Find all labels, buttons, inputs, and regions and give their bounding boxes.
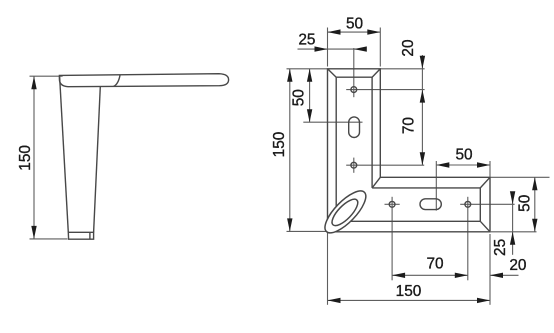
bracket outer outline	[328, 69, 491, 232]
slot S1 vertical oblong	[349, 117, 360, 138]
svg-text:20: 20	[509, 257, 526, 274]
dim 150 bottom: dimension line	[328, 299, 491, 301]
bracket bevel: top-left corner diagonal	[328, 69, 337, 77]
hole H2 vertical centerline	[353, 158, 355, 173]
svg-text:50: 50	[290, 89, 307, 106]
hole H1 horizontal centerline	[346, 89, 424, 91]
svg-text:150: 150	[271, 132, 288, 158]
hole H1 vertical centerline	[353, 48, 355, 97]
hole H4 horizontal centerline extended right	[460, 203, 514, 205]
dim 70 right: bottom arrow	[420, 152, 425, 165]
svg-text:70: 70	[426, 256, 443, 273]
dim 150 bracket-left: top arrow	[287, 69, 292, 82]
dim 150 left: top arrow	[31, 76, 36, 89]
svg-text:50: 50	[455, 147, 472, 164]
dim 25 top: right-pointing outside arrow	[315, 46, 328, 51]
dim 50 arm-top: dimension line	[436, 164, 490, 166]
hole H4 circle	[465, 201, 471, 207]
dim 50 bracket-left: bottom arrow	[307, 109, 312, 122]
dim 50 right: top arrow	[532, 177, 537, 190]
bracket bevel: vertical arm inner top	[336, 76, 372, 78]
dim 25 right: dimension line	[512, 192, 514, 255]
dim 150 left: bottom extension line	[30, 238, 68, 240]
dim 50 top: right arrow	[367, 29, 380, 34]
svg-text:150: 150	[17, 145, 34, 171]
leg left edge	[60, 77, 69, 233]
dim 50 arm-top: slot extension line	[435, 161, 437, 211]
svg-text:150: 150	[396, 283, 422, 300]
leg plate interior curve	[114, 75, 121, 86]
corner leg tube outer oval	[319, 185, 372, 239]
svg-text:70: 70	[400, 117, 417, 134]
hole H3 vertical centerline extended down	[391, 197, 393, 280]
svg-text:25: 25	[492, 239, 509, 256]
dim 20/70 vertical dimension line	[421, 55, 423, 165]
dim 150 bottom: left arrow	[328, 298, 341, 303]
bracket bevel: bottom arm inner right	[479, 188, 481, 221]
bracket bevel: right-bottom corner diagonal	[480, 221, 490, 232]
dim 20 top-right / dim 70 shared arrow	[420, 90, 425, 103]
svg-text:50: 50	[517, 195, 534, 212]
dim 70 bottom: dimension line	[392, 274, 468, 276]
bracket bevel: vertical arm inner left	[335, 77, 337, 221]
dim 50 arm-top: left arrow	[436, 162, 449, 167]
dim 70 bottom: left arrow	[392, 273, 405, 278]
dim 150 left: top extension line	[30, 75, 63, 77]
leg foot inner line	[89, 232, 91, 239]
dim 25 top: dimension line	[298, 48, 365, 50]
dim 50 right: bottom arrow	[532, 219, 537, 232]
dim 50 top: right extension line	[379, 28, 381, 67]
dim 50 top: dimension line	[328, 31, 381, 33]
dim 20 top-right: upper arrow	[420, 56, 425, 69]
bracket bevel: concave corner diagonal	[372, 177, 380, 188]
dim 25 right: upper outside arrow	[510, 191, 515, 204]
dim 150 left: dimension line	[33, 76, 35, 239]
dim 150 bottom: left edge extension line	[327, 232, 329, 305]
bracket bevel: bottom-left corner diagonal	[328, 221, 337, 232]
bracket bevel: bottom arm inner top	[372, 187, 480, 189]
hole H4 vertical centerline extended down	[467, 197, 469, 280]
corner leg tube inner oval	[328, 195, 361, 229]
hole H2 horizontal centerline	[346, 164, 424, 166]
leg foot	[68, 232, 93, 239]
dim 50 top: left extension line	[327, 28, 329, 67]
svg-text:25: 25	[298, 32, 315, 49]
bracket bevel: vertical arm inner right	[371, 77, 373, 188]
dim 50 arm-top: right arrow	[477, 162, 490, 167]
hole H1 circle	[351, 87, 357, 93]
dim 50 right: top extension line	[491, 176, 550, 178]
hole H3 horizontal centerline	[385, 203, 400, 205]
dim 50 bracket-left: slot extension line	[303, 121, 362, 123]
svg-text:20: 20	[400, 39, 417, 56]
dim 70 bottom: right arrow	[455, 273, 468, 278]
dim 150 bracket-left: top extension line	[287, 68, 328, 70]
dim 50 right: dimension line	[534, 177, 536, 232]
dim 50 bracket-left: dimension line	[309, 69, 311, 122]
dim 150 bracket-left: bottom arrow	[287, 218, 292, 231]
bracket bevel: top-right corner diagonal	[372, 69, 380, 77]
dim 150 bracket-left: bottom extension line	[287, 230, 327, 232]
dim 20 bottom-right: arrow	[490, 273, 503, 278]
hole H3 circle	[389, 201, 395, 207]
dim 50 right / 25 right: bottom extension line	[491, 231, 537, 233]
dim 150 left: bottom arrow	[31, 226, 36, 239]
top edge extension line to 20 dim	[380, 68, 424, 70]
leg right edge	[94, 87, 101, 233]
dim 150 bottom: right arrow	[477, 298, 490, 303]
dim 150 bottom: right edge extension line	[489, 234, 491, 305]
dim 50 top: left arrow	[328, 29, 341, 34]
dim 50 bracket-left: top arrow	[307, 69, 312, 82]
dim 150 bracket-left: dimension line	[289, 69, 291, 232]
dim 25 right: lower outside arrow	[510, 232, 515, 245]
slot S2 horizontal oblong	[420, 199, 441, 210]
dim 25 top: left-pointing outside arrow	[354, 46, 367, 51]
hole H2 circle	[351, 162, 357, 168]
dim 50 arm-top: right extension line	[489, 161, 491, 177]
svg-text:50: 50	[346, 16, 363, 33]
bracket bevel: right-top corner diagonal	[480, 177, 490, 188]
dim 20 bottom-right: leader line	[490, 274, 519, 276]
leg top plate outline	[59, 74, 228, 87]
bracket bevel: bottom arm inner bottom	[336, 220, 480, 222]
